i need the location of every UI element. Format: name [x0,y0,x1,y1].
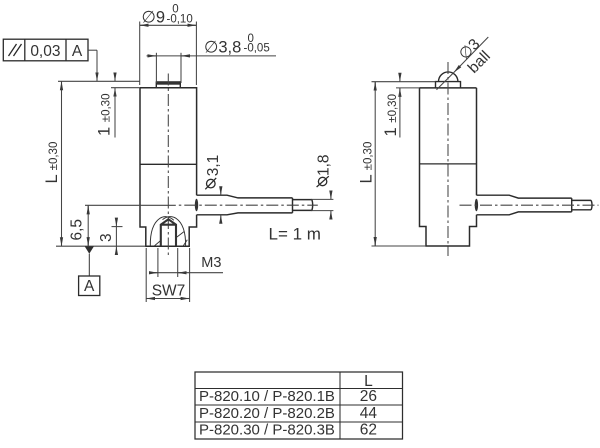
dimension 1 right [396,73,420,137]
dimension 3 [112,218,123,254]
dimension 1 left: body-top extension [111,87,140,89]
left view cable boot and cable [197,195,313,215]
table grid [195,372,403,439]
dimension ⌀1,8 [311,191,333,219]
dimension 1 left: dimension line with outside arrows [114,73,116,138]
left view top nub (⌀3.8 piston) [156,81,180,88]
svg-text:M3: M3 [201,255,221,271]
left view body outline [140,88,197,247]
ball ⌀3 [439,72,458,82]
thread dome arch left arc [150,217,174,246]
dimension ⌀3,1 arrows [220,188,222,223]
datum A leader [88,254,90,276]
dimension SW7 [146,248,189,302]
dimension L left: bottom extension line [56,245,146,247]
datum A box [79,276,100,296]
right view mid joint line [420,163,477,165]
svg-text:P-820.30 / P-820.3B: P-820.30 / P-820.3B [199,422,335,439]
tolerance frame text [30,43,83,60]
right view cable boot and cable [477,195,593,215]
tolerance frame leader [88,50,97,81]
dimension L left: dimension line [61,81,63,246]
svg-text:L ±0,30: L ±0,30 [43,142,61,184]
svg-text:0,03: 0,03 [30,43,60,60]
svg-text:44: 44 [360,405,378,422]
dimension M3 extension lines [150,248,223,277]
parallelism tolerance frame [3,39,88,61]
svg-text:-0,10: -0,10 [167,14,193,26]
svg-text:A: A [84,278,95,295]
M3 thread hole [161,219,176,246]
dimension ⌀9 top [140,22,197,86]
svg-text:A: A [72,43,83,60]
left view vertical centerline [167,74,169,257]
right cable root fillet [475,199,478,211]
svg-text:3: 3 [98,233,115,242]
svg-text:P-820.20 / P-820.2B: P-820.20 / P-820.2B [199,405,335,422]
right view vertical centerline [447,62,449,256]
dimension 6,5 [85,205,176,246]
svg-text:1,8: 1,8 [316,154,333,176]
right view top nub [436,82,461,88]
svg-text:6,5: 6,5 [69,219,86,241]
left cable root fillet [195,199,198,211]
svg-text:26: 26 [360,388,377,405]
svg-text:∅3,8: ∅3,8 [204,39,241,57]
label ⌀9 0/-0.10 [142,4,193,27]
right cable centerline [460,204,599,206]
svg-text:L ±0,30: L ±0,30 [358,142,376,184]
label ⌀3,8 0/-0.05 [204,33,270,57]
svg-text:∅9: ∅9 [142,9,166,27]
thread dome arch right arc [163,217,186,246]
right view body outline [420,88,477,246]
svg-text:1 ±0,30: 1 ±0,30 [96,94,114,136]
dimension ⌀3.8 [147,53,277,83]
svg-text:-0,05: -0,05 [244,43,270,55]
dome hatching [154,232,187,247]
dimension L left: top extension line [58,80,140,82]
svg-text:L= 1 m: L= 1 m [269,225,321,244]
ball leader line [437,37,489,90]
left cable centerline [179,204,318,206]
svg-text:1 ±0,30: 1 ±0,30 [382,94,400,136]
dimension L right: extensions [372,82,436,246]
left view mid joint line [140,163,197,165]
svg-text:P-820.10 / P-820.1B: P-820.10 / P-820.1B [199,388,335,405]
svg-text:3,1: 3,1 [205,155,222,177]
svg-text:SW7: SW7 [152,282,186,299]
svg-text:62: 62 [360,422,377,439]
datum A triangle [85,246,94,253]
